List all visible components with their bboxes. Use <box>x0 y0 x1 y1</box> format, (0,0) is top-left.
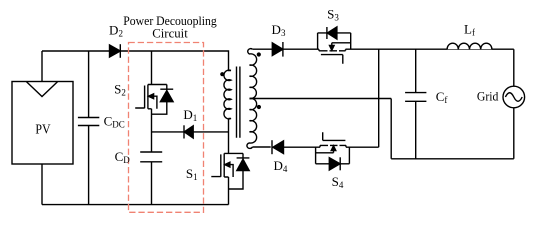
svg-text:Lf: Lf <box>464 22 475 38</box>
svg-text:D4: D4 <box>273 158 287 174</box>
diode D2 <box>110 45 121 57</box>
svg-text:D3: D3 <box>272 22 286 38</box>
body diode of S2 <box>160 85 173 91</box>
svg-text:S4: S4 <box>332 174 344 190</box>
transistor S1 <box>228 119 230 154</box>
wire bottom rail <box>42 204 229 206</box>
svg-text:D1: D1 <box>183 107 197 123</box>
wire secondary bottom to D4 <box>252 146 270 148</box>
svg-text:D2: D2 <box>109 22 123 38</box>
wire left vertical PV+ <box>41 51 43 82</box>
svg-text:Grid: Grid <box>477 89 499 103</box>
transistor S2 <box>151 51 153 85</box>
node dot primary <box>220 72 224 76</box>
svg-text:PV: PV <box>35 122 50 137</box>
transformer secondary winding top <box>248 49 257 99</box>
wire D4 to S4 <box>284 146 321 148</box>
node dot secondary bottom <box>257 105 261 109</box>
svg-text:S1: S1 <box>186 166 198 182</box>
wire top rail from PV to transformer primary <box>42 51 231 71</box>
wire D1 node <box>152 131 229 133</box>
svg-text:S2: S2 <box>114 82 126 98</box>
diode D3 <box>272 43 283 56</box>
wire PV- down <box>41 164 43 205</box>
wire D3 to S3 <box>283 48 319 50</box>
transistor S3 <box>318 33 351 49</box>
wire S3 to junction <box>346 48 514 50</box>
svg-text:S3: S3 <box>327 7 339 23</box>
wire center tap <box>250 99 392 159</box>
diode D4 <box>273 141 284 154</box>
dashed box power decoupling circuit <box>129 43 204 213</box>
capacitor Cf <box>405 49 426 159</box>
svg-text:Cf: Cf <box>436 89 448 105</box>
svg-text:Circuit: Circuit <box>152 27 188 41</box>
capacitor CD <box>140 152 162 205</box>
transistor S4 <box>316 147 350 164</box>
PV module <box>12 82 73 165</box>
node dot secondary top <box>257 52 261 56</box>
transformer core <box>237 67 240 138</box>
inductor Lf <box>447 43 492 49</box>
diode D1 <box>184 126 193 138</box>
transformer secondary winding bottom <box>247 98 257 148</box>
wire to grid <box>513 49 515 159</box>
transformer T1 primary winding <box>224 70 231 119</box>
svg-text:CDC: CDC <box>104 113 125 129</box>
wire secondary top to D3 <box>252 48 272 50</box>
wire bottom bus <box>391 158 514 160</box>
body diode of S1 <box>237 153 250 159</box>
source Grid <box>503 86 525 108</box>
capacitor CDC <box>78 51 99 205</box>
wire S4 to junction riser <box>346 146 379 148</box>
wire junction riser <box>378 49 380 147</box>
